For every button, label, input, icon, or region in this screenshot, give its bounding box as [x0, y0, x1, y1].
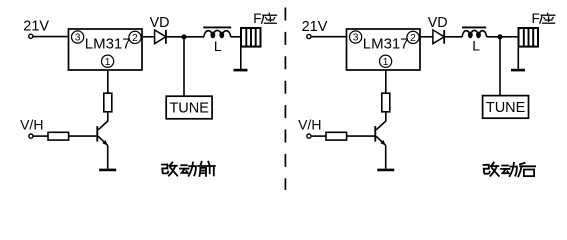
svg-text:LM317: LM317 [363, 36, 409, 53]
svg-text:21V: 21V [302, 19, 328, 35]
wire: pin1 down to resistor [107, 70, 109, 93]
F socket connector (right) [519, 28, 539, 47]
wire: V/H terminal to resistor (right) [311, 135, 326, 137]
resistor R2 (base, left) [48, 132, 69, 140]
pin 3 (circled) [72, 31, 84, 44]
svg-text:F: F [253, 11, 261, 26]
F socket connector (left) [241, 28, 261, 47]
svg-text:VD: VD [428, 15, 448, 31]
wire: V/H terminal to resistor [33, 135, 48, 137]
svg-text:L: L [472, 38, 480, 54]
diode VD (left) [155, 30, 166, 44]
wire: emitter to ground [107, 145, 109, 168]
ground (emitter, left) [99, 169, 116, 172]
junction node (L-F-TUNE, right) [497, 34, 502, 39]
resistor R1 (pin1, left) [104, 93, 112, 112]
wire: node down to TUNE (right) [499, 37, 501, 96]
input terminal V/H (left) [29, 134, 33, 138]
label F座 (left) [253, 11, 277, 26]
svg-text:2: 2 [132, 33, 138, 44]
wire: 21V terminal to LM317 pin3 [33, 36, 69, 38]
wire: F socket to ground (right) [517, 47, 519, 69]
svg-text:2: 2 [410, 33, 416, 44]
wire: resistor to collector (right) [376, 112, 386, 130]
inductor L core bar (left) [203, 26, 231, 28]
caption 改动后 (after modification) [484, 163, 536, 177]
wire: node down to TUNE [183, 37, 185, 96]
svg-text:V/H: V/H [20, 116, 43, 132]
glyph 改 (right caption) [484, 163, 499, 176]
svg-text:F: F [532, 11, 540, 26]
wire: resistor to base [69, 135, 97, 137]
pin 1 (circled) [102, 55, 114, 68]
input terminal V/H (right) [307, 134, 311, 138]
svg-text:21V: 21V [23, 19, 49, 35]
wire: pin2 to diode anode [142, 36, 155, 38]
inductor L coil (right) [462, 30, 486, 37]
transistor Q2 base bar (right) [374, 126, 376, 142]
transistor Q1 base bar (left) [96, 126, 98, 142]
svg-text:TUNE: TUNE [486, 100, 526, 116]
caption 改动前 (before modification) [162, 162, 215, 176]
regulator U2 LM317 body [347, 29, 421, 70]
pin 3 (circled, right) [350, 31, 362, 44]
svg-text:V/H: V/H [298, 116, 321, 132]
svg-text:3: 3 [353, 33, 359, 44]
junction node (diode-L-TUNE) [181, 34, 186, 39]
inductor L core bar (right) [462, 26, 486, 28]
label F座 (right) [532, 11, 556, 26]
regulator U1 LM317 body [69, 29, 143, 70]
glyph 动 (left caption) [180, 163, 196, 176]
wire: resistor to base (right) [347, 135, 375, 137]
input terminal 21V (left) [29, 34, 33, 38]
TUNE box (left) [166, 96, 212, 119]
glyph 改 (left caption) [162, 162, 177, 175]
svg-text:L: L [214, 38, 222, 54]
glyph 前 (left caption) [198, 162, 215, 176]
inductor L coil (left) [204, 30, 231, 37]
wire: 21V terminal to LM317 pin3 (right) [311, 36, 347, 38]
transistor Q1 emitter with arrow (left) [98, 136, 108, 145]
pin 1 (circled, right) [380, 55, 392, 68]
wire: emitter to ground (right) [385, 145, 387, 168]
diode VD (right) [433, 30, 444, 44]
pin 2 (circled, right) [407, 31, 419, 44]
input terminal 21V (right) [307, 34, 311, 38]
svg-text:3: 3 [75, 33, 81, 44]
svg-text:VD: VD [150, 15, 170, 31]
glyph 动 (right caption) [501, 163, 517, 176]
wire: diode cathode to inductor (right) [444, 36, 462, 38]
transistor Q2 emitter with arrow (right) [376, 136, 386, 145]
wire: diode cathode to inductor [166, 36, 204, 38]
resistor R4 (base, right) [326, 132, 347, 140]
wire: inductor to F socket through node (right) [487, 36, 519, 38]
svg-text:TUNE: TUNE [169, 101, 209, 117]
separator dashed line [284, 8, 286, 191]
ground (F socket, right) [511, 69, 525, 72]
wire: F socket to ground [240, 47, 242, 69]
glyph 后 (right caption) [518, 163, 535, 177]
ground (emitter, right) [377, 169, 394, 172]
pin 2 (circled) [129, 31, 141, 44]
wire: inductor to F socket [231, 36, 241, 38]
resistor R3 (pin1, right) [382, 93, 390, 112]
wire: pin2 to diode anode (right) [420, 36, 433, 38]
TUNE box (right) [483, 96, 529, 119]
svg-text:LM317: LM317 [85, 36, 131, 53]
wire: resistor to collector [98, 112, 108, 130]
ground (F socket, left) [234, 69, 248, 72]
svg-text:1: 1 [105, 57, 111, 68]
wire: pin1 down to resistor (right) [385, 70, 387, 93]
svg-text:1: 1 [383, 57, 389, 68]
